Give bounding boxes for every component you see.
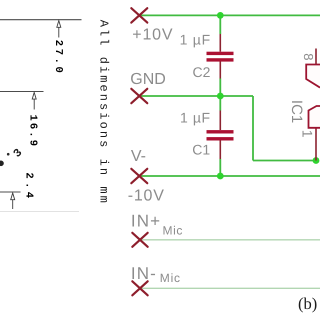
svg-text:V-: V-	[131, 148, 146, 165]
svg-text:1: 1	[300, 130, 316, 138]
svg-text:-10V: -10V	[128, 187, 165, 204]
svg-text:1 µF: 1 µF	[180, 109, 211, 125]
svg-text:IN-: IN-	[131, 264, 157, 283]
svg-text:(b): (b)	[298, 294, 317, 313]
svg-text:16.9: 16.9	[27, 115, 39, 149]
svg-text:27.0: 27.0	[52, 40, 64, 76]
svg-text:All dimensions in mm: All dimensions in mm	[96, 20, 110, 205]
svg-text:8: 8	[301, 53, 316, 60]
svg-text:GND: GND	[130, 71, 166, 88]
svg-text:IC1: IC1	[288, 100, 305, 123]
svg-text:+10V: +10V	[132, 27, 173, 44]
svg-text:C1: C1	[192, 141, 210, 157]
svg-text:Mic: Mic	[163, 224, 183, 238]
svg-text:C2: C2	[193, 64, 211, 80]
svg-text:2.4: 2.4	[23, 172, 35, 201]
svg-text:Mic: Mic	[160, 271, 181, 285]
svg-text:1 µF: 1 µF	[180, 32, 211, 48]
svg-text:IN+: IN+	[131, 211, 161, 230]
